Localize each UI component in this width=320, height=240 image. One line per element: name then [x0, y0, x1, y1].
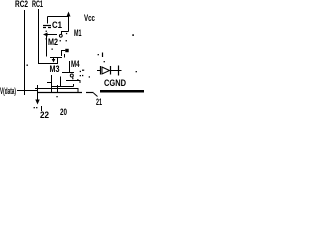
- svg-text:20: 20: [60, 107, 67, 117]
- wire top rail: [48, 16, 69, 18]
- ground label CGND: [104, 78, 126, 88]
- capacitor C1: [43, 17, 51, 40]
- label M1: [74, 28, 82, 38]
- svg-text:RC2: RC2: [15, 0, 28, 9]
- transistor M2 gate wire with arrow: [43, 33, 57, 57]
- label M3: [50, 64, 60, 74]
- net label Vcc: [84, 13, 95, 23]
- probe wire with down arrow: [35, 85, 39, 105]
- svg-text:M2: M2: [48, 37, 58, 47]
- stray mark near M1 source: [98, 53, 103, 58]
- leader to node 21: [94, 93, 98, 97]
- wire V(data) horizontal: [17, 90, 38, 92]
- svg-text:C1: C1: [52, 20, 62, 30]
- transistor M4: [52, 71, 82, 87]
- transistor M3: [47, 58, 62, 94]
- transistor M1: [59, 32, 68, 42]
- svg-text:M3: M3: [50, 64, 60, 74]
- wire RC2 vertical: [24, 10, 26, 95]
- bus wire left: [38, 92, 82, 94]
- label M2: [48, 37, 58, 47]
- wire upper branch with step down: [35, 85, 78, 93]
- svg-text:CGND: CGND: [104, 78, 126, 88]
- net label RC1: [32, 0, 43, 9]
- label C1: [52, 20, 62, 30]
- speck right: [136, 71, 137, 72]
- node label 20: [60, 107, 67, 117]
- junction dot under tick: [56, 96, 57, 97]
- node label 22 with leader: [34, 106, 49, 120]
- power Vcc arrow: [67, 12, 71, 32]
- bus wire right: [100, 90, 144, 93]
- dashed link M4 to diode: [82, 70, 90, 78]
- svg-text:M4: M4: [71, 59, 80, 69]
- label M4: [71, 59, 80, 69]
- node label 21: [96, 97, 102, 107]
- wire M2 contact down to M4 gate: [69, 61, 71, 73]
- svg-text:Vcc: Vcc: [84, 13, 95, 23]
- junction speck left: [27, 65, 28, 66]
- net label RC2: [15, 0, 28, 9]
- svg-text:21: 21: [96, 97, 102, 107]
- speck top right: [132, 34, 134, 36]
- bus wire dashed: [86, 92, 94, 94]
- svg-text:M1: M1: [74, 28, 82, 38]
- svg-text:V(data): V(data): [0, 86, 16, 96]
- transistor M2 drain corner with contact: [52, 49, 69, 58]
- svg-text:RC1: RC1: [32, 0, 43, 9]
- wire RC1 vertical and bend to M3 gate: [39, 9, 58, 64]
- svg-text:22: 22: [40, 110, 49, 120]
- diode D1: [97, 61, 122, 76]
- source label V(data): [0, 86, 16, 96]
